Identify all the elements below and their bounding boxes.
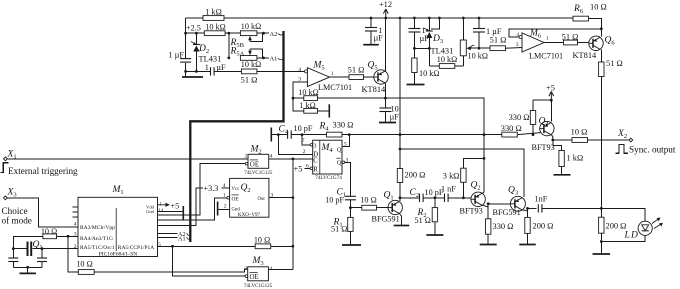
wire Q5 collector (384, 83, 387, 99)
svg-text:KT814: KT814 (362, 85, 387, 94)
resistor 200 Ohm (Q3) (525, 208, 554, 244)
diode D2 TL431 (191, 33, 200, 71)
svg-text:2: 2 (245, 154, 248, 160)
wire M2 output (269, 158, 313, 161)
IC M4 74LVC1G74 (313, 140, 342, 174)
wire M1 to M3 OE (173, 246, 246, 276)
label RA5/CCP1/P1A (118, 245, 154, 251)
label 74LVC1G125 (M3) (244, 284, 273, 289)
wire M3 output (268, 269, 293, 271)
pin 4 label M2 (270, 154, 273, 160)
resistor R6 10 Ohm (573, 3, 607, 22)
label Vdd Gnd (146, 205, 155, 215)
label Vcc (232, 187, 240, 192)
transistor Q5 KT814 (362, 61, 389, 95)
wire osc out (68, 236, 78, 272)
ground (D3 bias) (407, 73, 425, 85)
svg-text:51 Ω: 51 Ω (490, 36, 507, 45)
node dot LD top (600, 207, 603, 210)
wiper R5A (248, 49, 263, 58)
resistor R2 51 Ohm (415, 198, 438, 235)
resistor 10 kOhm (feedback) (298, 88, 318, 101)
pin 2 gnd Q2 (218, 203, 230, 209)
capacitor 10uF (Q5) (379, 98, 399, 122)
svg-text:RA3/MClr/Vpp: RA3/MClr/Vpp (80, 225, 115, 231)
ground (10uF) (379, 122, 396, 124)
power +5 (Q4) (546, 84, 555, 101)
capacitor 1 nF (Q2 base) (441, 185, 456, 203)
pin bubble M4 pin7 (310, 144, 313, 147)
svg-text:74LVC1G74: 74LVC1G74 (315, 175, 342, 181)
potentiometer R5A 10 kOhm (240, 56, 261, 70)
resistor 51 Ohm (Q6 base) (562, 33, 579, 45)
pulse symbol (sync) (616, 145, 628, 154)
crystal Q1 (28, 240, 43, 256)
wire Q2 osc output (269, 193, 293, 199)
node dots on +12 rail (370, 17, 481, 20)
pin bubble M2 OE (245, 162, 248, 165)
pin 4 label M5 (298, 67, 301, 73)
stub bar (1 kOhm) (328, 104, 330, 117)
svg-text:10 kΩ: 10 kΩ (241, 60, 261, 69)
svg-text:µF: µF (374, 34, 384, 43)
resistor 1 kOhm (Q4) (553, 140, 583, 175)
svg-text:3: 3 (313, 142, 316, 149)
capacitor 1uF (D3 left) (408, 18, 429, 58)
label D3 (432, 34, 443, 45)
svg-text:1: 1 (205, 63, 209, 72)
label External triggering (8, 166, 78, 176)
wire Vdd to +5 (158, 201, 180, 210)
label Q2 (osc) (241, 183, 251, 194)
pulse symbol (X1) (0, 163, 8, 173)
pin 2 label M1 (74, 244, 77, 250)
label KXO-V97 (238, 213, 260, 218)
label +3.3 (204, 183, 230, 193)
label Sync. output (629, 144, 676, 154)
svg-text:of mode: of mode (2, 216, 32, 226)
ground (LD) (593, 253, 611, 255)
wire M5 output (330, 71, 350, 77)
svg-text:51 Ω: 51 Ω (562, 33, 579, 42)
ground (R1) (342, 244, 361, 246)
wire M6 feedback (509, 27, 603, 37)
label M3 (252, 256, 264, 267)
svg-text:µF: µF (390, 113, 400, 122)
ground (Q1 emitter) (394, 225, 410, 227)
wire common node vertical (292, 159, 295, 270)
node dot Q1 base (349, 206, 352, 209)
svg-text:KT814: KT814 (573, 51, 598, 60)
wire M6 output (544, 42, 564, 44)
resistor 3 kOhm (443, 158, 484, 197)
svg-text:5: 5 (344, 141, 347, 147)
resistor 330 Ohm (Q3 base) (486, 204, 514, 245)
svg-text:4: 4 (223, 183, 226, 189)
pin 3 label M1 (74, 231, 77, 237)
pin 14 label M1 (158, 208, 164, 214)
wire X1 line (8, 158, 248, 160)
svg-text:1 µF: 1 µF (169, 51, 185, 60)
capacitor (crystal right) (37, 249, 47, 268)
pin bubble M3 OE (245, 275, 248, 278)
wire Q6 emitter (600, 50, 602, 56)
wire C4 to M4 preset (302, 135, 310, 145)
transistor Q4 BFT93 (532, 117, 555, 153)
label M2 (250, 145, 262, 156)
wire osc feedback (13, 235, 78, 249)
wire x484 column (483, 135, 485, 193)
connector X1 (4, 150, 17, 161)
svg-text:330 Ω: 330 Ω (333, 121, 354, 130)
svg-text:10 kΩ: 10 kΩ (437, 55, 457, 64)
op-amp M5 LMC7101 (307, 68, 329, 87)
svg-text:10 pF: 10 pF (325, 196, 344, 205)
svg-text:BFG591: BFG591 (493, 208, 521, 217)
svg-text:+5: +5 (294, 165, 303, 174)
svg-text:Q: Q (337, 147, 342, 154)
svg-text:4: 4 (298, 67, 301, 73)
resistor R4 330 Ohm (319, 121, 354, 138)
ground (+12 filter) (363, 44, 379, 46)
node dot ref-line (184, 32, 230, 35)
label +2.5 (186, 24, 201, 33)
stub bar (Q2 gnd) (217, 202, 219, 216)
resistor 10 kOhm (D3 bias) (412, 58, 440, 78)
laser diode LD (624, 221, 653, 240)
resistor 51 Ohm (M5 input) (241, 69, 258, 85)
svg-text:A1: A1 (270, 56, 278, 63)
wire osc out to M3 (94, 269, 248, 272)
wire M1 to M2 OE (158, 164, 246, 215)
IC M3 74LVC1G125 (248, 267, 269, 281)
pin stubs M1 (73, 207, 79, 217)
svg-text:2: 2 (224, 203, 227, 209)
label OE M2 (250, 160, 259, 168)
ground (crystal) (19, 272, 36, 274)
svg-text:+12: +12 (379, 0, 392, 9)
wire Q1 collector to C2 (400, 197, 420, 199)
svg-text:1 kΩ: 1 kΩ (299, 101, 315, 110)
stub bar (M1 gnd) (182, 206, 184, 220)
svg-text:10 Ω: 10 Ω (571, 128, 588, 137)
svg-text:51 Ω: 51 Ω (415, 216, 431, 225)
pin labels M4 left (313, 142, 318, 173)
wire M1 aux (158, 188, 204, 226)
label Gnd (osc) (232, 207, 241, 212)
wire C4 to M4 D (278, 135, 312, 155)
svg-text:10 Ω: 10 Ω (590, 3, 607, 12)
potentiometer 10 kOhm (M6 ref) (460, 18, 488, 66)
svg-text:L: L (624, 231, 630, 241)
svg-text:Gnd: Gnd (146, 209, 155, 214)
svg-text:10 kΩ: 10 kΩ (468, 52, 488, 61)
pin bubble M4 pin6 (310, 167, 313, 170)
svg-text:10 pF: 10 pF (294, 124, 313, 133)
wire left branch vertical (185, 18, 187, 77)
svg-text:51 Ω: 51 Ω (241, 76, 258, 85)
IC Q2 KXO-V97 (230, 178, 269, 217)
wire to Q6 base (578, 42, 590, 44)
label OE (osc) (232, 195, 240, 202)
wire M5 pin3 input (293, 82, 307, 98)
pin 3 label M5 (298, 77, 301, 83)
wire LD loop bottom (600, 235, 645, 243)
label R5A (230, 47, 245, 58)
resistor 10 Ohm (P1A) (254, 236, 271, 249)
pin Qbar M4 (336, 157, 348, 166)
node dot D3 ref (413, 47, 431, 50)
label 74LVC1G125 (M2) (244, 171, 273, 176)
svg-text:LMC7101: LMC7101 (529, 52, 563, 61)
wire mid rail (291, 133, 540, 135)
wire 1nF to LD node (542, 207, 601, 209)
wiper arrow (M6 pot) (466, 45, 479, 50)
pin bubble Q2 OE (223, 193, 230, 200)
transistor Q1 BFG591 (372, 191, 403, 224)
wire 51 Ohm to Q5 (364, 76, 375, 78)
label Out (258, 197, 266, 202)
label RA3/MClr/Vpp (80, 225, 115, 231)
svg-text:C: C (313, 158, 318, 165)
svg-text:10 Ω: 10 Ω (360, 195, 376, 204)
label TL431 (D2) (199, 55, 222, 64)
pin bubble M5 pin4 (305, 70, 308, 73)
svg-text:KXO–V97: KXO–V97 (238, 213, 260, 218)
svg-text:+3.3: +3.3 (204, 184, 219, 193)
wire M1 pin5 line (158, 245, 256, 248)
label PIC16F684/I-SN (99, 251, 138, 257)
wire R6 to Q6 collector (589, 19, 602, 37)
wire Gnd pin14 (158, 210, 184, 212)
wire R5A out to A1 (227, 57, 269, 60)
svg-text:51 Ω: 51 Ω (606, 59, 623, 68)
resistor 10 kOhm (ref) (204, 23, 225, 36)
transistor Q3 BFG591 (493, 186, 526, 217)
svg-text:10 Ω: 10 Ω (41, 227, 57, 236)
label 74LVC1G74 (315, 175, 342, 181)
svg-text:51 Ω: 51 Ω (331, 225, 347, 234)
capacitor C4 10 pF (279, 124, 313, 139)
svg-text:200 Ω: 200 Ω (533, 222, 554, 231)
svg-text:2: 2 (244, 266, 247, 272)
wire 51 Ohm to M6 pin3 (506, 42, 523, 48)
potentiometer R5B 10 kOhm (240, 22, 261, 35)
wire +5 distribution (533, 99, 553, 122)
svg-text:1: 1 (546, 36, 549, 42)
resistor R1 51 Ohm (331, 208, 353, 245)
ground (1 kOhm Q4) (554, 174, 571, 176)
transistor Q2 BFT93 (460, 181, 486, 216)
wire Q1 emitter (400, 214, 402, 226)
capacitor 1nF (LD) (535, 195, 548, 213)
stub bar (C4 input) (270, 128, 272, 142)
op-amp M6 LMC7101 (522, 33, 544, 52)
svg-text:7: 7 (302, 138, 305, 144)
capacitor (crystal left) (8, 249, 18, 268)
ground (R2) (426, 234, 443, 236)
svg-text:RA5/T1C/Osc1: RA5/T1C/Osc1 (80, 245, 115, 251)
svg-text:51 Ω: 51 Ω (348, 66, 365, 75)
svg-text:10 Ω: 10 Ω (254, 236, 270, 245)
wire Q2 collector (483, 192, 485, 193)
svg-text:200 Ω: 200 Ω (606, 222, 627, 231)
resistor 330 Ohm (Q4 base) (501, 124, 522, 137)
capacitor C2 10 pF (410, 188, 444, 202)
wire Q6 emitter column (600, 77, 602, 209)
label M1 (112, 185, 124, 196)
ground (left cap) (182, 76, 203, 78)
svg-text:74LVC1G125: 74LVC1G125 (244, 284, 273, 289)
label +5 (M4 reset) (294, 164, 311, 174)
svg-text:200 Ω: 200 Ω (405, 171, 426, 180)
label LMC7101 (M5) (318, 83, 352, 92)
svg-text:330 Ω: 330 Ω (509, 113, 530, 122)
svg-text:Out: Out (258, 197, 266, 202)
wire Q1 base line (350, 207, 388, 209)
capacitor C1 10 pF (325, 188, 356, 208)
svg-text:3: 3 (516, 42, 519, 48)
pin 2 label M2 (245, 154, 248, 160)
node dot 3k top (483, 157, 486, 160)
wire C2 to 1nF (423, 196, 444, 199)
svg-text:1: 1 (223, 193, 226, 199)
resistor 51 Ohm (Q5 base) (348, 66, 365, 80)
label M5 (313, 61, 325, 72)
resistor 10 Ohm (Q1 base) (360, 195, 376, 210)
wire M5 feedback rail (292, 97, 484, 135)
label A2 (top) (270, 31, 284, 38)
pin 2 label M3 (244, 266, 247, 272)
transistor Q6 KT814 (573, 36, 616, 61)
wire +2.5 line (186, 32, 241, 34)
wire 10 Ohm to node (271, 245, 293, 247)
label A1 (top) (270, 56, 284, 63)
svg-text:A1: A1 (178, 235, 186, 242)
wire crystal gnd (13, 266, 42, 274)
wire A1 from M1 (158, 235, 191, 242)
svg-text:+5: +5 (546, 84, 555, 93)
wire +12 rail (186, 17, 573, 19)
svg-text:BFG591: BFG591 (372, 215, 400, 224)
resistor 1 kOhm (branch) (299, 101, 317, 113)
svg-text:+5: +5 (171, 201, 180, 210)
ground (200 Ohm Q3) (519, 244, 536, 246)
svg-text:10 kΩ: 10 kΩ (205, 23, 225, 32)
pin 2 label M4 (303, 149, 306, 155)
label RA4/An3/T1G (80, 236, 113, 242)
svg-text:External triggering: External triggering (8, 166, 78, 176)
svg-text:1: 1 (159, 201, 162, 207)
svg-text:PIC16F684/I–SN: PIC16F684/I–SN (99, 251, 138, 257)
label Choice of mode (2, 206, 32, 226)
wire D3 anode line (429, 65, 463, 67)
resistor 200 Ohm (Q1) (397, 169, 425, 183)
pin bubble M6 pin4 (516, 32, 522, 39)
connector X2 (617, 129, 633, 142)
svg-text:2: 2 (303, 149, 306, 155)
svg-text:1nF: 1nF (535, 195, 548, 204)
wire Q3 emitter (522, 207, 536, 211)
resistor 10 Ohm (osc) (41, 227, 57, 239)
pin 5 label M1 (158, 242, 161, 248)
wire pots left vertical (228, 33, 230, 58)
svg-text:RA5/CCP1/P1A: RA5/CCP1/P1A (118, 245, 154, 251)
wire X3 line (8, 198, 78, 227)
capacitor 1uF (left) (169, 51, 192, 63)
svg-text:µF: µF (216, 63, 226, 72)
capacitor 1uF (M6 ref) (473, 18, 502, 48)
svg-text:1 kΩ: 1 kΩ (567, 154, 584, 163)
svg-text:3: 3 (271, 193, 274, 199)
wire Q5 emitter (384, 18, 386, 71)
svg-text:3 kΩ: 3 kΩ (443, 172, 460, 181)
resistor 1 kOhm (top-left) (203, 8, 224, 21)
connector X3 (4, 188, 17, 200)
svg-text:Q: Q (337, 160, 342, 167)
wire M1 to Q2 OE (158, 198, 228, 220)
wire y149 line (400, 149, 524, 197)
resistor 10 Ohm (X2) (571, 128, 588, 143)
svg-text:D: D (630, 231, 638, 241)
wire Q4 collector (551, 135, 554, 142)
power +12 (379, 0, 392, 18)
resistor 10 Ohm (osc out) (76, 260, 94, 275)
resistor 10 kOhm (D3 anode) (437, 55, 457, 68)
svg-text:1 nF: 1 nF (441, 185, 456, 194)
capacitor 1uF (series) (205, 63, 226, 76)
svg-text:Choice: Choice (2, 206, 28, 216)
svg-text:A2: A2 (270, 31, 278, 38)
wire LD loop top (601, 208, 645, 221)
svg-text:OE: OE (232, 196, 240, 202)
IC M2 74LVC1G125 (248, 154, 269, 168)
wire crystal line (12, 247, 78, 250)
wire R5B out to A2 (257, 32, 269, 35)
svg-text:10 Ω: 10 Ω (76, 260, 92, 269)
label M4 (321, 143, 334, 154)
wire Q1 collector column (399, 18, 402, 201)
svg-text:1 kΩ: 1 kΩ (205, 8, 222, 17)
diode D3 TL431 (424, 18, 433, 66)
label D2 (198, 44, 209, 55)
pin 1 label M1 (159, 201, 162, 207)
svg-text:OE: OE (250, 273, 259, 281)
wire C4 left (271, 133, 287, 136)
label OE M3 (250, 272, 259, 280)
resistor 330 Ohm (Q4 bias) (509, 111, 536, 125)
svg-text:R: R (313, 166, 318, 173)
svg-text:1: 1 (331, 71, 334, 77)
svg-text:+2.5: +2.5 (186, 24, 201, 33)
label TL431 (D3) (431, 47, 454, 56)
svg-text:10 kΩ: 10 kΩ (298, 88, 318, 97)
svg-text:5: 5 (158, 242, 161, 248)
svg-text:330 Ω: 330 Ω (493, 222, 514, 231)
LD light arrows (652, 217, 663, 228)
svg-text:330 Ω: 330 Ω (501, 124, 522, 133)
IC M1 PIC16F684 (78, 197, 158, 256)
wire pot to 51 Ohm (478, 47, 490, 50)
svg-text:OE: OE (250, 160, 259, 168)
label RA5/T1C/Osc1 (80, 245, 115, 251)
svg-text:4: 4 (74, 221, 77, 227)
svg-text:Sync. output: Sync. output (629, 144, 676, 154)
svg-text:BFT93: BFT93 (460, 207, 483, 216)
svg-text:LMC7101: LMC7101 (318, 83, 352, 92)
svg-text:74LVC1G125: 74LVC1G125 (244, 171, 273, 176)
label R5B (230, 38, 245, 49)
